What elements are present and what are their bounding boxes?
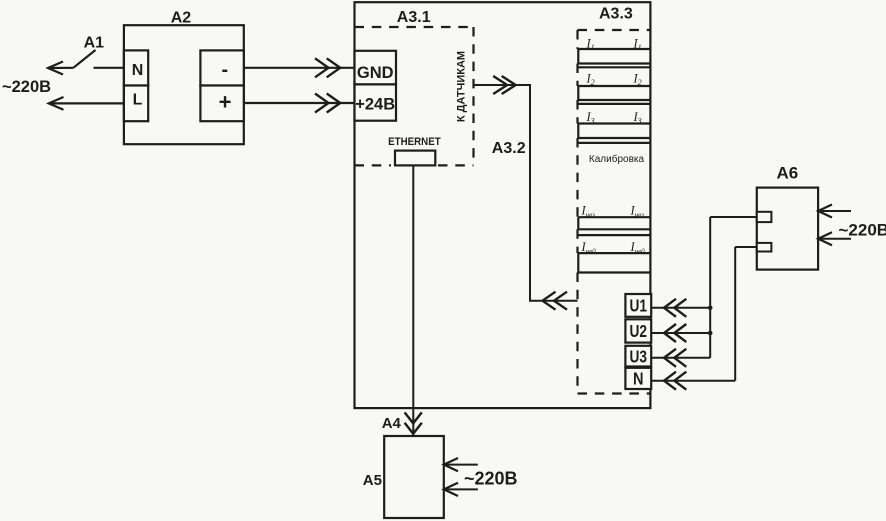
svg-text:U3: U3 bbox=[630, 346, 648, 366]
svg-text:Калибровка: Калибровка bbox=[589, 153, 645, 165]
svg-text:А5: А5 bbox=[363, 472, 382, 489]
svg-text:Iнвз: Iнвз bbox=[581, 204, 596, 220]
svg-text:I1: I1 bbox=[633, 37, 642, 53]
svg-text:А3.1: А3.1 bbox=[397, 9, 431, 26]
svg-text:L: L bbox=[133, 92, 143, 109]
svg-text:А4: А4 bbox=[382, 415, 402, 432]
svg-text:+: + bbox=[219, 89, 232, 114]
svg-text:+24В: +24В bbox=[355, 96, 395, 114]
svg-text:А3.2: А3.2 bbox=[492, 140, 526, 157]
svg-text:~220В: ~220В bbox=[2, 78, 51, 96]
svg-text:А6: А6 bbox=[777, 164, 799, 183]
svg-text:Iнв0: Iнв0 bbox=[581, 240, 597, 256]
svg-text:I2: I2 bbox=[633, 72, 642, 88]
svg-text:I1: I1 bbox=[586, 37, 595, 53]
svg-text:~220В: ~220В bbox=[464, 469, 518, 489]
svg-text:I2: I2 bbox=[586, 72, 595, 88]
svg-text:I3: I3 bbox=[586, 110, 595, 126]
svg-text:I3: I3 bbox=[633, 110, 642, 126]
svg-text:А2: А2 bbox=[171, 9, 192, 26]
svg-text:N: N bbox=[132, 62, 144, 79]
svg-text:-: - bbox=[222, 59, 229, 81]
svg-text:U2: U2 bbox=[630, 321, 648, 341]
svg-text:U1: U1 bbox=[630, 296, 648, 316]
svg-text:ETHERNET: ETHERNET bbox=[388, 136, 441, 148]
svg-text:Iнв0: Iнв0 bbox=[630, 240, 646, 256]
svg-text:Iнвз: Iнвз bbox=[630, 204, 645, 220]
svg-text:А3.3: А3.3 bbox=[599, 5, 633, 22]
svg-text:К ДАТЧИКАМ: К ДАТЧИКАМ bbox=[456, 51, 468, 122]
svg-text:~220В: ~220В bbox=[839, 221, 886, 240]
svg-text:А1: А1 bbox=[84, 35, 105, 52]
svg-text:N: N bbox=[633, 369, 644, 389]
svg-text:GND: GND bbox=[357, 64, 394, 82]
